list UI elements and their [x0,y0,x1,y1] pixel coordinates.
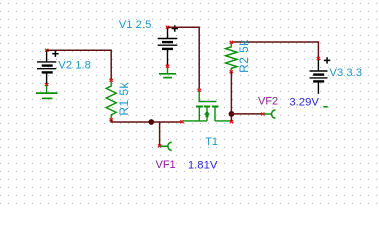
wire V2+ to R1 top [47,50,112,80]
terminal tick V2 plus [45,49,48,52]
voltage pin VF1 probe [160,142,172,150]
wire R1 bottom to T1 source [111,120,182,122]
svg-text:R2 5k: R2 5k [237,39,251,73]
svg-text:V3 3.3: V3 3.3 [329,67,362,79]
battery V1 [158,25,178,66]
wire R2 bottom to T1 drain [230,72,232,121]
ground below V1 [159,66,176,78]
T1 bulk arrow [204,111,210,117]
terminal tick R2 top [230,41,233,44]
terminal tick V1 plus [166,26,169,29]
junction dot node VF1 [148,119,154,125]
transistor T1 (NMOS) [182,91,231,121]
terminal tick VF1 [158,144,161,147]
svg-text:VF1: VF1 [156,159,176,171]
V3 minus terminal mark [323,106,327,108]
junction dot node VF2 [229,111,235,117]
svg-text:VF2: VF2 [258,96,278,108]
resistor R2 [226,44,238,71]
terminal tick R1 bottom [110,118,113,121]
svg-text:T1: T1 [205,136,218,148]
svg-text:V1 2.5: V1 2.5 [119,19,152,31]
resistor R1 [106,82,116,119]
svg-text:R1 5k: R1 5k [117,81,131,115]
terminal tick T1 drain [230,120,233,123]
svg-text:V2 1.8: V2 1.8 [58,59,91,71]
ground below V2 [36,85,58,99]
terminal tick V1 minus [166,65,169,68]
wire V1+ to T1 gate [168,27,200,89]
terminal tick T1 gate [198,89,201,92]
svg-text:1.81V: 1.81V [188,159,218,171]
terminal tick R1 top [110,79,113,82]
wire R2 top to V3 plus [231,42,318,58]
battery V2 [37,50,59,84]
terminal tick V2 minus [45,83,48,86]
voltage pin VF2 probe [263,110,275,118]
wire down to VF1 probe [159,122,161,145]
terminal tick R2 bottom [230,70,233,73]
terminal tick T1 source [180,120,183,123]
wire junction to VF2 probe [232,113,262,115]
terminal tick VF2 [261,113,264,116]
battery V3 [310,57,331,94]
svg-text:3.29V: 3.29V [289,96,319,108]
terminal tick V3 plus [317,57,320,60]
